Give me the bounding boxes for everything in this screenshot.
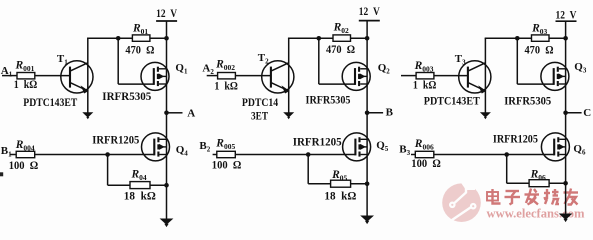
node source junction (164, 183, 169, 188)
p-mosfet Q2 IRFR5305 (342, 62, 370, 90)
wire main rail vertical (565, 38, 567, 215)
resistor R05 18 kohm (331, 180, 351, 187)
wire collector-emitter vertical (288, 38, 290, 113)
resistor R04 18 kohm (130, 182, 150, 189)
resistor R01 470 ohm (132, 35, 150, 41)
wire main rail vertical (166, 38, 168, 220)
svg-text:PDTC143ET: PDTC143ET (424, 95, 480, 107)
svg-text:100 Ω: 100 Ω (9, 158, 39, 172)
wire input A (207, 75, 218, 77)
12 V supply bar stage 2 (359, 20, 380, 22)
node gate junction B (105, 152, 110, 157)
wire input B (10, 154, 16, 156)
node gate tap junction (116, 36, 121, 41)
node supply junction (365, 36, 370, 41)
transistor T3 PDTC143ET (459, 61, 491, 94)
svg-text:PDTC14: PDTC14 (242, 97, 279, 109)
resistor R02 470 ohm (333, 35, 351, 41)
svg-text:3ET: 3ET (251, 111, 268, 123)
wire gate feed (117, 38, 119, 84)
wire collector-emitter vertical (484, 38, 486, 113)
wire gate to pulldown (107, 155, 109, 186)
node gate tap junction (317, 36, 322, 41)
wire input B (411, 154, 415, 156)
svg-text:IRFR1205: IRFR1205 (293, 137, 342, 149)
p-mosfet Q3 IRFR5305 (541, 62, 569, 90)
svg-text:1 kΩ: 1 kΩ (14, 77, 38, 91)
svg-text:www.elecfans.com: www.elecfans.com (487, 206, 585, 221)
wire pulldown to rail (351, 183, 368, 185)
svg-text:B: B (386, 107, 394, 119)
node supply junction (164, 36, 169, 41)
svg-text:IRFR1205: IRFR1205 (493, 134, 538, 146)
wire top rail (485, 37, 532, 39)
resistor R001 1 kohm (17, 73, 35, 79)
wire supply drop (565, 21, 567, 38)
svg-text:1 kΩ: 1 kΩ (214, 79, 238, 93)
svg-text:18 kΩ: 18 kΩ (324, 188, 356, 202)
node A (164, 111, 169, 116)
resistor R06 18 kohm (529, 180, 549, 187)
n-mosfet Q5 IRFR1205 (343, 133, 371, 161)
ground arrow rail (559, 214, 573, 220)
p-mosfet Q1 IRFR5305 (141, 62, 169, 90)
resistor R005 100 ohm (217, 151, 236, 157)
wire input A (2, 75, 17, 77)
svg-text:12 V: 12 V (359, 4, 380, 18)
node C (563, 111, 568, 116)
wire top rail (87, 37, 132, 39)
watermark logo disc (442, 180, 481, 222)
ground arrow emitter (480, 112, 491, 117)
n-mosfet Q4 IRFR1205 (142, 133, 170, 161)
wire supply drop (166, 21, 168, 38)
n-mosfet Q6 IRFR1205 (541, 133, 569, 161)
resistor R006 100 ohm (415, 151, 434, 157)
wire gate feed (318, 38, 320, 84)
12 V supply bar stage 3 (556, 20, 577, 22)
node gate junction B (306, 152, 311, 157)
wire gate to pulldown (307, 155, 309, 184)
stage 1 (1, 6, 195, 227)
node source junction (365, 182, 370, 187)
resistor R03 470 ohm (532, 35, 550, 41)
svg-text:IRFR5305: IRFR5305 (102, 91, 151, 103)
ground arrow rail (360, 216, 374, 222)
svg-text:470 Ω: 470 Ω (525, 43, 554, 57)
12 V supply bar stage 1 (156, 20, 177, 22)
wire collector-emitter vertical (87, 38, 89, 113)
wire top rail (288, 37, 333, 39)
node gate tap junction (515, 36, 520, 41)
transistor T1 PDTC143ET (61, 61, 93, 94)
wire gate feed (516, 38, 518, 84)
ground arrow emitter (283, 112, 294, 117)
svg-text:A: A (187, 107, 195, 119)
svg-text:12 V: 12 V (156, 6, 177, 20)
svg-text:12 V: 12 V (556, 7, 577, 21)
svg-text:18 kΩ: 18 kΩ (124, 188, 156, 202)
wire main rail vertical (366, 38, 368, 217)
svg-text:100 Ω: 100 Ω (411, 156, 441, 170)
resistor R004 100 ohm (16, 151, 35, 157)
svg-text:IRFR1205: IRFR1205 (92, 134, 139, 146)
stage 2 (199, 4, 393, 224)
svg-text:IRFR5305: IRFR5305 (306, 95, 351, 107)
svg-text:PDTC143ET: PDTC143ET (23, 97, 77, 109)
svg-text:470 Ω: 470 Ω (326, 42, 355, 56)
wire supply drop (366, 21, 368, 39)
node gate junction B (504, 152, 509, 157)
node B (365, 111, 370, 116)
wire pulldown to rail (549, 182, 566, 184)
wire input A (401, 75, 416, 77)
svg-text:IRFR5305: IRFR5305 (504, 96, 551, 108)
resistor R002 1 kohm (218, 73, 236, 79)
wire pulldown to rail (150, 184, 167, 186)
svg-text:100 Ω: 100 Ω (212, 158, 242, 172)
scan speck (0, 172, 3, 176)
stage 3 (399, 7, 591, 222)
svg-text:470 Ω: 470 Ω (125, 43, 154, 57)
watermark chinese text (487, 189, 578, 205)
wire gate to pulldown (506, 155, 508, 184)
node supply junction (563, 36, 568, 41)
svg-text:1 kΩ: 1 kΩ (413, 78, 437, 92)
transistor T2 PDTC143ET (262, 61, 294, 94)
ground arrow rail (160, 219, 174, 225)
wire input B (213, 154, 217, 156)
svg-text:C: C (583, 107, 591, 119)
node source junction (563, 181, 568, 186)
resistor R003 1 kohm (416, 73, 434, 79)
ground arrow emitter (82, 112, 93, 117)
